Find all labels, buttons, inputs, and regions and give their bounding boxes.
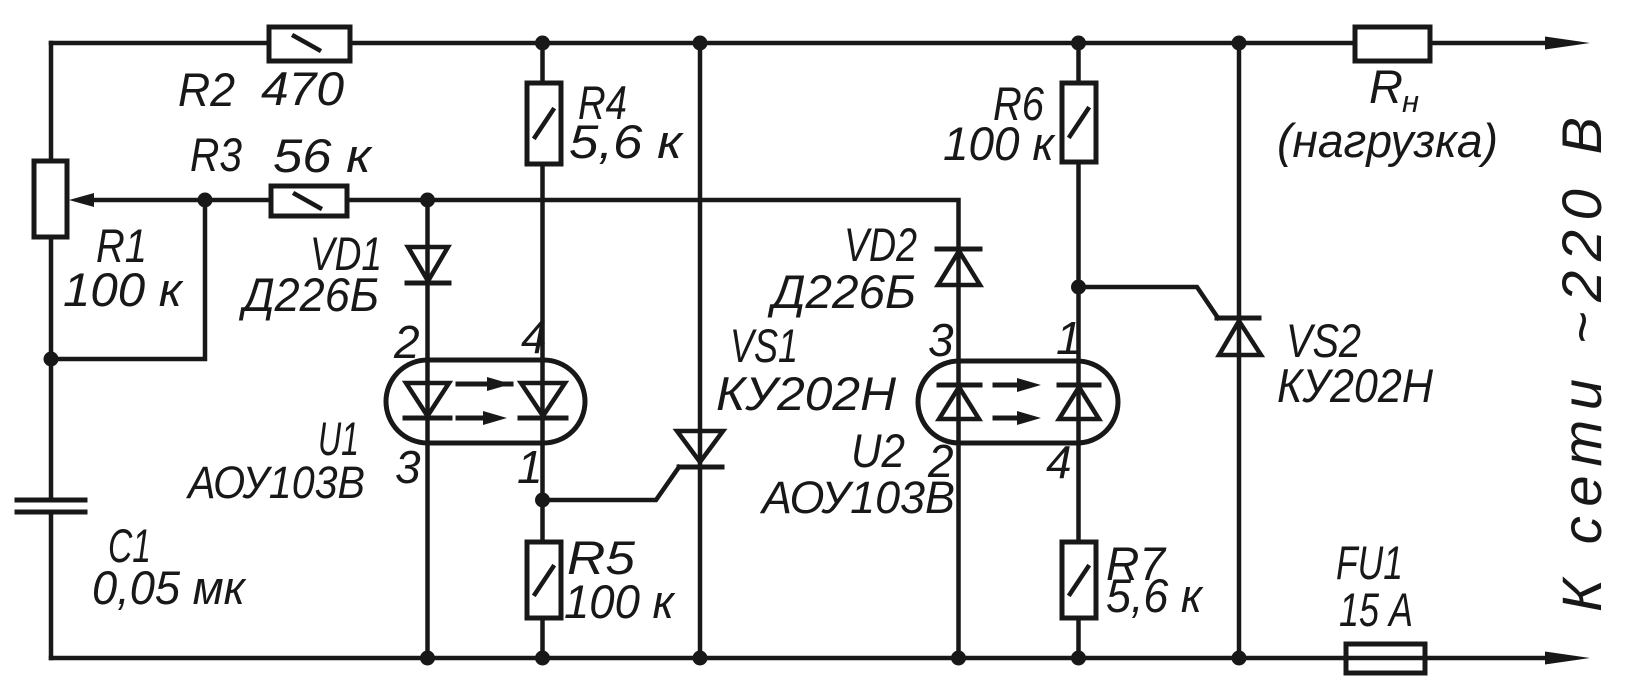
wire left rail: top corner to R1 xyxy=(49,43,54,161)
optocoupler U1 body xyxy=(386,360,585,443)
junction dot U1 pin1 / gate xyxy=(535,493,550,508)
U2 light arrows xyxy=(995,378,1041,425)
wire bottom rail: FU1 to arrow xyxy=(1425,656,1550,661)
svg-text:КУ202Н: КУ202Н xyxy=(1277,359,1433,412)
wire top rail: left corner to R2 xyxy=(51,41,269,46)
thyristor VS2 xyxy=(1217,318,1261,355)
wire bottom rail xyxy=(51,656,1346,661)
svg-text:15 А: 15 А xyxy=(1339,583,1413,636)
junction dot left rail tap xyxy=(44,352,59,367)
svg-text:(нагрузка): (нагрузка) xyxy=(1277,114,1498,167)
wire: R6 through U2 to R7 xyxy=(1076,162,1081,542)
svg-text:U2: U2 xyxy=(851,424,905,477)
U1 receiver diode xyxy=(520,383,566,418)
resistor R6 body xyxy=(1062,83,1096,162)
junction dot R6/gate branch xyxy=(1071,280,1086,295)
svg-text:3: 3 xyxy=(928,314,954,366)
svg-text:4: 4 xyxy=(521,311,547,363)
wire left rail: C1 to bottom corner xyxy=(49,512,54,658)
svg-text:К сети ~220 В: К сети ~220 В xyxy=(1550,117,1613,612)
wire top rail: R2 to Rn xyxy=(350,41,1355,46)
wire left rail: R1 to C1 xyxy=(49,237,54,500)
svg-text:1: 1 xyxy=(1056,312,1082,364)
potentiometer R1 body xyxy=(34,161,67,237)
wire: R4 through U1 to R5 xyxy=(540,164,545,542)
svg-text:470: 470 xyxy=(261,62,344,115)
svg-text:56 к: 56 к xyxy=(273,129,373,182)
diode VD1 xyxy=(407,247,449,283)
svg-text:R: R xyxy=(1369,60,1403,113)
junction dot top rail R4 xyxy=(535,36,550,51)
resistor Rn (load) body xyxy=(1355,27,1430,61)
wire VD1 branch xyxy=(425,200,430,658)
svg-text:2: 2 xyxy=(927,435,954,487)
junction dot VD1 branch on R3 line xyxy=(420,193,435,208)
wire: R3 to VD2 corner xyxy=(347,200,959,249)
svg-text:FU1: FU1 xyxy=(1336,536,1403,589)
wire VS2 branch xyxy=(1237,43,1242,658)
svg-text:R2: R2 xyxy=(178,63,235,116)
svg-text:100 к: 100 к xyxy=(63,263,184,316)
svg-text:VD2: VD2 xyxy=(844,218,917,271)
wire: top rail to R6 xyxy=(1076,43,1081,83)
wire VS2 gate xyxy=(1079,287,1219,318)
svg-text:КУ202Н: КУ202Н xyxy=(716,367,896,420)
svg-text:VS1: VS1 xyxy=(730,319,798,372)
svg-text:АОУ103В: АОУ103В xyxy=(185,457,365,508)
wire R1 bottom tap xyxy=(51,200,205,359)
resistor R5 body xyxy=(527,542,561,618)
svg-text:1: 1 xyxy=(517,441,543,493)
resistor R2 body xyxy=(269,27,350,61)
junction dots bottom rail xyxy=(420,651,1247,666)
resistor R3 body xyxy=(271,186,347,216)
U2 receiver diode xyxy=(1059,385,1099,419)
U2 emitter diode xyxy=(939,385,980,419)
wire: top rail to R4 xyxy=(540,43,545,83)
optocoupler U2 body xyxy=(918,361,1118,443)
arrow to mains (top right) xyxy=(1545,37,1590,50)
U1 light arrows xyxy=(458,377,511,425)
junction dot top rail R6 xyxy=(1071,36,1086,51)
fuse FU1 body xyxy=(1346,644,1425,673)
svg-text:2: 2 xyxy=(393,316,420,368)
wire: R7 to bottom rail xyxy=(1076,618,1081,658)
svg-text:Д226Б: Д226Б xyxy=(238,268,379,321)
svg-text:0,05 мк: 0,05 мк xyxy=(92,561,247,614)
diode VD2 xyxy=(937,249,980,285)
svg-text:100 к: 100 к xyxy=(943,117,1056,170)
R1 wiper arrow xyxy=(69,193,94,207)
wire: R5 to bottom rail xyxy=(540,618,545,658)
resistor R4 body xyxy=(527,83,561,164)
junction dot top rail VS2 xyxy=(1232,36,1247,51)
thyristor VS1 xyxy=(677,431,723,467)
arrow to mains (bottom right) xyxy=(1545,652,1590,665)
svg-text:5,6 к: 5,6 к xyxy=(1106,569,1204,622)
capacitor C1 plates xyxy=(17,500,85,512)
wire top rail: Rn to right arrow xyxy=(1430,41,1550,46)
svg-text:R3: R3 xyxy=(190,128,242,181)
svg-text:4: 4 xyxy=(1046,436,1072,488)
svg-text:АОУ103В: АОУ103В xyxy=(759,472,955,523)
svg-text:Д226Б: Д226Б xyxy=(767,265,916,318)
junction dot top rail VS1 xyxy=(693,36,708,51)
wire node A: wiper line to R3 xyxy=(90,198,271,203)
wire VS1 branch xyxy=(698,43,703,658)
wire VS1 gate xyxy=(543,467,680,500)
svg-text:100 к: 100 к xyxy=(564,575,676,628)
svg-text:5,6 к: 5,6 к xyxy=(569,115,684,168)
junction dot wiper/R1-tap xyxy=(198,193,213,208)
wire VD2 to bottom rail xyxy=(956,249,961,658)
svg-text:3: 3 xyxy=(395,441,421,493)
resistor R7 body xyxy=(1062,542,1096,618)
U1 emitter diode xyxy=(405,383,450,418)
